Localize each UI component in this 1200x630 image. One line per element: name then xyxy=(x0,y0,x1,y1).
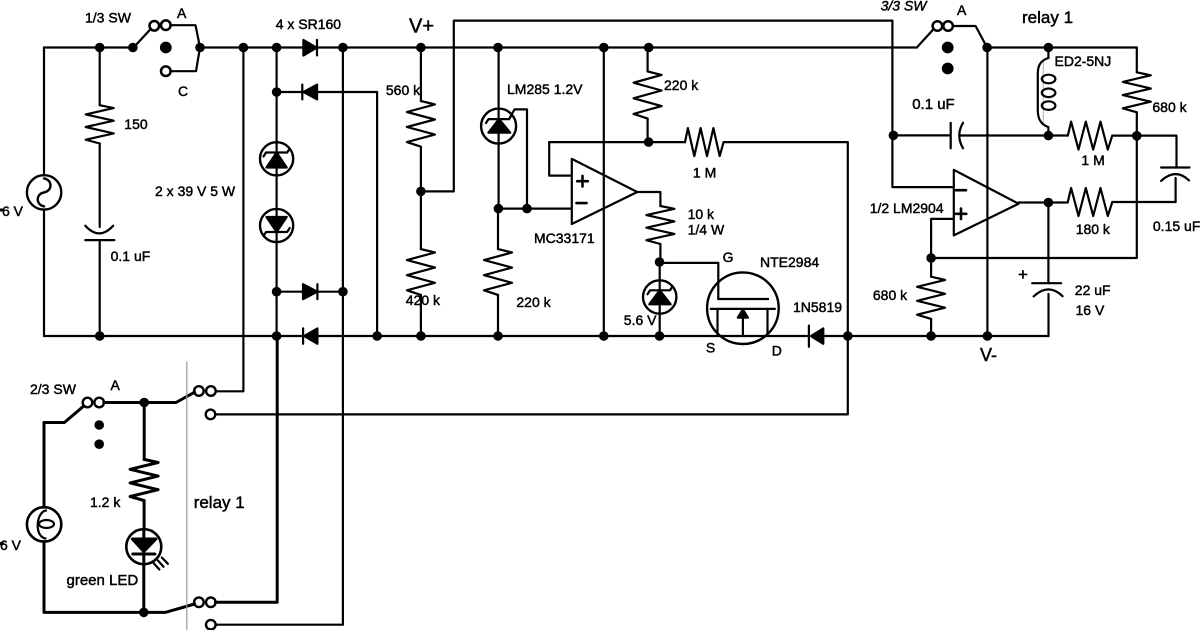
resistor 1M right xyxy=(1068,122,1113,150)
wire: left vertical below AC source xyxy=(43,210,45,336)
svg-text:G: G xyxy=(723,249,734,265)
zener diode Z1 (39V) xyxy=(260,142,293,175)
resistor 680k bottom left xyxy=(917,258,945,336)
node: dot cap to bottom bus xyxy=(95,331,105,341)
node: dots on bottom bus xyxy=(272,331,992,341)
node: dots on output node column xyxy=(1044,131,1142,208)
svg-text:relay 1: relay 1 xyxy=(1022,8,1073,27)
relay contact single upper NO xyxy=(206,410,216,420)
svg-text:relay 1: relay 1 xyxy=(194,493,245,512)
resistor 420k xyxy=(407,191,435,336)
svg-text:1/2 LM2904: 1/2 LM2904 xyxy=(870,200,944,216)
wire: gate wire to MOSFET xyxy=(660,263,719,299)
capacitor 0.1uF bottom left xyxy=(85,226,114,336)
node: dot 220k bottom / 1M left xyxy=(644,137,654,147)
switch 1/3 SW xyxy=(133,20,200,76)
svg-text:0.15 uF: 0.15 uF xyxy=(1153,218,1200,234)
svg-text:S: S xyxy=(706,340,715,356)
lower section thicker strokes xyxy=(0,336,277,630)
voltage reference LM285 1.2V xyxy=(481,48,527,209)
svg-text:150: 150 xyxy=(124,116,148,132)
svg-text:1 M: 1 M xyxy=(693,165,716,181)
svg-text:3/3 SW: 3/3 SW xyxy=(881,0,929,14)
svg-text:1N5819: 1N5819 xyxy=(793,299,842,315)
svg-text:0.1 uF: 0.1 uF xyxy=(111,248,151,264)
resistor 680k right xyxy=(1123,48,1151,136)
svg-text:NTE2984: NTE2984 xyxy=(760,254,819,270)
wire: MC33171 output to 10k xyxy=(637,192,660,206)
resistor 220k top right xyxy=(634,48,662,143)
wire: 1M right to 0.15uF top xyxy=(1112,136,1176,168)
svg-text:A: A xyxy=(177,5,187,21)
svg-text:2/3 SW: 2/3 SW xyxy=(30,381,77,397)
wire: below lamp to bottom wire xyxy=(44,542,144,613)
LED green xyxy=(126,529,168,569)
resistor 560k xyxy=(407,48,435,192)
wire: MC33171 power column xyxy=(603,48,605,337)
node: dot gate node xyxy=(655,257,665,267)
svg-text:A: A xyxy=(111,377,121,393)
svg-text:D: D xyxy=(772,343,782,359)
svg-text:1/4 W: 1/4 W xyxy=(688,222,725,238)
wire: LED column to bottom wire xyxy=(142,564,145,612)
capacitor 22uF xyxy=(1032,203,1062,337)
wire: blade to relay lower contact xyxy=(144,604,195,612)
wire: 1M to x=848 column down to node X xyxy=(215,142,848,414)
wire: zener column top xyxy=(276,48,278,143)
svg-text:+: + xyxy=(1018,265,1028,284)
relay contact single lower NO xyxy=(206,620,216,630)
diode D2 branch xyxy=(277,85,378,100)
node: dots at LM285 output node xyxy=(494,204,532,214)
svg-text:C: C xyxy=(178,83,188,99)
svg-text:16 V: 16 V xyxy=(1076,302,1105,318)
resistor 150 xyxy=(86,48,114,228)
switch 2/3 SW xyxy=(44,398,144,449)
relay 1 boundary line xyxy=(186,362,188,630)
node: dot 2/3 SW junction xyxy=(139,398,149,408)
diode D4 on bottom bus xyxy=(303,328,317,343)
transistor Q1 NTE2984 MOSFET xyxy=(707,272,779,344)
svg-text:220 k: 220 k xyxy=(664,77,699,93)
svg-text:ED2-5NJ: ED2-5NJ xyxy=(1055,53,1112,69)
wire: LM2904 power column xyxy=(986,48,988,337)
svg-text:V+: V+ xyxy=(409,16,434,38)
wire: lower pair to zener column xyxy=(215,336,277,602)
diode D1 on top bus xyxy=(303,40,317,56)
wire: blade to relay upper contact xyxy=(144,392,194,402)
svg-text:10 k: 10 k xyxy=(688,206,715,222)
wire: D2 output down x=377 xyxy=(376,92,378,336)
svg-text:LM285 1.2V: LM285 1.2V xyxy=(507,81,583,97)
wire: LM2904 output xyxy=(1019,201,1068,203)
relay coil ED2-5NJ xyxy=(1038,48,1056,136)
AC source 6V top xyxy=(27,175,61,209)
op-amp U2 1/2 LM2904 xyxy=(954,170,1019,236)
wire: between zeners xyxy=(276,175,278,209)
wire: bottom bus left segment xyxy=(44,335,303,337)
svg-text:A: A xyxy=(957,2,967,18)
svg-text:MC33171: MC33171 xyxy=(534,230,595,246)
node: dots on relay node line xyxy=(982,43,1053,53)
svg-text:680 k: 680 k xyxy=(1152,99,1187,115)
node: dot + input node xyxy=(926,253,936,263)
svg-text:1/3 SW: 1/3 SW xyxy=(85,10,132,26)
capacitor 0.15uF xyxy=(1161,168,1189,203)
svg-text:2 x 39 V 5 W: 2 x 39 V 5 W xyxy=(155,183,236,199)
wire: 180k right to 0.15uF bottom xyxy=(1112,201,1175,203)
resistor 1.2k xyxy=(130,403,158,530)
diode D3 branch xyxy=(277,284,343,299)
wire: zener column bottom xyxy=(276,242,278,336)
node: dot D2 at zener column xyxy=(272,87,282,97)
wire: bottom bus mid segment xyxy=(317,335,809,337)
wire: divider tap to top rail and down to LM2904 inverting input xyxy=(421,21,954,192)
wire: x=243 column to relay contact xyxy=(216,48,244,392)
zener diode 5.6V xyxy=(643,262,676,336)
switch 3/3 SW xyxy=(917,21,987,73)
svg-text:22 uF: 22 uF xyxy=(1075,282,1111,298)
clipped minus sign of top 6V label xyxy=(0,209,3,212)
svg-text:420 k: 420 k xyxy=(406,292,441,308)
resistor 10k xyxy=(646,206,674,244)
wire: relay node line xyxy=(987,46,1137,48)
capacitor 0.1uF top right xyxy=(893,123,1067,149)
wire: top bus left segment xyxy=(44,46,133,48)
node: dot LED bottom xyxy=(139,608,149,618)
lamp 6V bottom xyxy=(27,507,61,541)
svg-text:4 x SR160: 4 x SR160 xyxy=(276,16,342,32)
wire: reference node to MC33171 inverting input xyxy=(498,208,571,210)
op-amp U1 MC33171 xyxy=(572,159,638,224)
resistor 1M middle xyxy=(685,128,724,156)
clipped minus sign of bottom 6V label xyxy=(0,542,3,545)
svg-text:1 M: 1 M xyxy=(1081,152,1104,168)
wire: + node line to x=1136.8 column xyxy=(931,136,1137,258)
wire: top bus main segment V+ rail xyxy=(200,46,917,48)
node: junction dots on top bus xyxy=(95,43,654,53)
wire: feedback line y=142 xyxy=(549,141,685,143)
node: dots D3 xyxy=(272,287,348,297)
svg-text:6 V: 6 V xyxy=(2,203,24,219)
svg-text:6 V: 6 V xyxy=(0,537,22,553)
relay contact pair lower NC xyxy=(194,598,216,608)
diode 1N5819 xyxy=(809,326,823,347)
resistor 180k xyxy=(1068,188,1113,216)
svg-text:5.6 V: 5.6 V xyxy=(624,312,657,328)
svg-text:1.2 k: 1.2 k xyxy=(90,494,121,510)
wire: left vertical above AC source xyxy=(43,48,45,176)
wire: above lamp xyxy=(43,423,46,508)
svg-text:V-: V- xyxy=(980,345,997,365)
svg-text:180 k: 180 k xyxy=(1076,221,1111,237)
relay contact pair upper NC xyxy=(194,386,216,396)
node: divider tap dot xyxy=(416,187,426,197)
svg-text:green LED: green LED xyxy=(67,572,139,589)
wire: MC33171 noninverting input xyxy=(549,142,572,176)
resistor 220k middle xyxy=(484,209,512,336)
wire: x=343 column top bus to lower relay NO contact xyxy=(215,48,343,625)
node: dot divider line / cap xyxy=(889,131,899,141)
wire: LM2904 noninverting input path xyxy=(931,219,954,258)
svg-text:0.1 uF: 0.1 uF xyxy=(912,96,955,113)
wire: bottom V- bus right segment xyxy=(823,335,1048,337)
wire: 10k bottom to gate node xyxy=(659,244,661,262)
svg-text:560 k: 560 k xyxy=(386,82,421,98)
zener diode Z2 (39V) xyxy=(260,209,293,242)
svg-text:220 k: 220 k xyxy=(516,294,551,310)
svg-text:680 k: 680 k xyxy=(873,287,908,303)
